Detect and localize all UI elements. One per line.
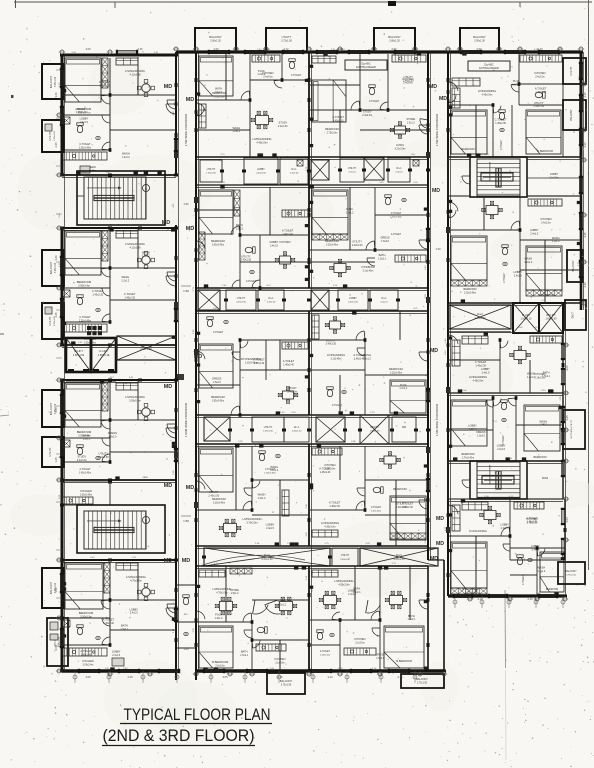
dimension ticks bottom wall: [73, 671, 417, 683]
svg-text:KITCHEN UTILITY: KITCHEN UTILITY: [571, 419, 573, 438]
svg-text:UTILITY: UTILITY: [534, 101, 544, 105]
svg-text:1.45: 1.45: [54, 457, 58, 463]
svg-text:Dn-1: Dn-1: [294, 427, 300, 429]
unit R4 furniture: [451, 400, 560, 460]
svg-text:2.4x1.5: 2.4x1.5: [395, 171, 403, 173]
svg-text:4.12x3.98: 4.12x3.98: [130, 247, 142, 250]
svg-text:M.LIFT: M.LIFT: [74, 349, 83, 353]
bed in L3 bedroom: [65, 383, 108, 438]
corridor 2 MD labels: [429, 84, 447, 562]
svg-text:3.05x3.3m: 3.05x3.3m: [214, 96, 225, 98]
svg-text:WASH: WASH: [527, 372, 535, 376]
svg-text:2.40x1.50: 2.40x1.50: [236, 301, 246, 303]
svg-text:BALCONY: BALCONY: [209, 35, 222, 39]
svg-text:2.45: 2.45: [337, 47, 343, 51]
unit L4 kitchen row walls: [60, 480, 112, 562]
svg-text:BEDROOM: BEDROOM: [77, 280, 92, 284]
svg-text:1.5x2.1: 1.5x2.1: [407, 618, 416, 621]
svg-text:LIVING/DINING: LIVING/DINING: [335, 579, 354, 583]
svg-text:UTILITY: UTILITY: [396, 502, 406, 506]
svg-text:MD: MD: [164, 384, 172, 390]
svg-text:TYPICAL FLOOR PLAN: TYPICAL FLOOR PLAN: [124, 706, 271, 724]
unit D1 walls: [308, 52, 430, 157]
svg-text:2.40: 2.40: [583, 282, 587, 288]
svg-text:MD: MD: [164, 483, 172, 489]
svg-text:LIVING/DINING: LIVING/DINING: [125, 242, 145, 246]
svg-text:2.40x1.50: 2.40x1.50: [209, 495, 220, 498]
lift M.LIFT: [66, 338, 91, 372]
svg-text:LIVING: LIVING: [396, 144, 404, 147]
svg-text:BEDROOM: BEDROOM: [389, 367, 402, 371]
svg-text:BALCONY: BALCONY: [565, 570, 577, 573]
svg-text:BEDROOM: BEDROOM: [212, 497, 225, 501]
kitchen R1: [520, 55, 562, 78]
svg-text:WASH: WASH: [232, 126, 240, 130]
misc small fixtures and extra marks: [63, 117, 562, 627]
svg-text:3.05x3.4m: 3.05x3.4m: [78, 285, 90, 288]
svg-text:LIVING/DINING: LIVING/DINING: [469, 375, 487, 379]
svg-text:1.45x2.4m: 1.45x2.4m: [320, 654, 330, 656]
svg-text:3.21x3.9m: 3.21x3.9m: [395, 148, 406, 150]
svg-text:DUCT: DUCT: [573, 311, 575, 318]
svg-text:B: B: [145, 519, 147, 523]
unit C1 furniture: [196, 55, 302, 145]
svg-text:2.60x1.20: 2.60x1.20: [389, 40, 400, 43]
double-line wall pairs on major separators: [62, 52, 583, 671]
svg-text:2.4x2.3m: 2.4x2.3m: [278, 125, 288, 128]
svg-text:BALCONY: BALCONY: [49, 403, 53, 416]
svg-text:2.4x1.5: 2.4x1.5: [482, 372, 491, 375]
svg-text:LOBBY: LOBBY: [550, 173, 559, 176]
corridor 2 rotated label upper: [435, 113, 439, 146]
living dining L5: [116, 563, 176, 613]
utility protrusion left of L2: [42, 303, 64, 339]
lift G.LIFT: [91, 338, 116, 372]
svg-text:MD: MD: [164, 558, 172, 564]
long duct band left segment: [202, 548, 332, 566]
svg-text:STUDY: STUDY: [279, 121, 288, 125]
svg-text:Duct: Duct: [143, 343, 149, 347]
svg-text:2.75x1.50: 2.75x1.50: [417, 683, 428, 685]
top edge scan line: [14, 1, 592, 3]
svg-text:2.4x1.5: 2.4x1.5: [348, 593, 357, 596]
svg-text:C.TOILET: C.TOILET: [475, 360, 487, 364]
title line 1: [120, 706, 272, 724]
unit C1 walls: [195, 52, 311, 157]
svg-text:3.40: 3.40: [54, 407, 58, 413]
svg-text:1.5M WIDE CORRIDOR: 1.5M WIDE CORRIDOR: [184, 113, 188, 146]
svg-text:3.05x5.0m: 3.05x5.0m: [129, 400, 141, 403]
svg-text:2.40: 2.40: [527, 597, 533, 601]
svg-text:3.05x1.06: 3.05x1.06: [55, 76, 57, 87]
svg-text:KITCHEN: KITCHEN: [280, 241, 291, 244]
svg-text:Dg ABC: Dg ABC: [361, 62, 370, 66]
svg-text:1.2x1.2: 1.2x1.2: [539, 424, 548, 427]
svg-text:STUDY: STUDY: [363, 110, 372, 114]
utility protrusion left of L1: [42, 120, 64, 152]
svg-text:1.50: 1.50: [435, 247, 441, 251]
unit L5 walls (bottom-left flat): [60, 556, 178, 673]
svg-text:1.2x1.2: 1.2x1.2: [215, 617, 224, 620]
svg-text:WASH: WASH: [258, 493, 266, 497]
svg-text:BEDROOM: BEDROOM: [211, 239, 224, 243]
corridor 1 walls: [176, 52, 196, 680]
svg-text:BATH: BATH: [379, 253, 386, 257]
svg-text:2.4x2.0m: 2.4x2.0m: [403, 82, 413, 84]
svg-text:4.65X1.50: 4.65X1.50: [140, 348, 152, 351]
stair core S1 landing: [77, 171, 165, 225]
svg-text:1.5x1.2: 1.5x1.2: [407, 121, 416, 124]
unit D3 walls: [308, 311, 430, 415]
svg-text:2.20: 2.20: [583, 142, 587, 148]
svg-text:A.TOILET: A.TOILET: [283, 359, 295, 363]
svg-text:2.05x1.05: 2.05x1.05: [54, 130, 56, 140]
svg-text:A.TOILET: A.TOILET: [391, 233, 402, 236]
svg-text:3.05: 3.05: [85, 675, 91, 679]
svg-text:1.50: 1.50: [183, 519, 189, 523]
unit C4 furniture: [199, 448, 289, 537]
right duct band: [449, 305, 511, 329]
svg-text:1.45x2.40: 1.45x2.40: [103, 622, 114, 625]
svg-text:3.40: 3.40: [54, 92, 58, 98]
svg-text:C.TOILET: C.TOILET: [79, 316, 91, 319]
svg-text:3.72: 3.72: [283, 47, 289, 51]
svg-text:4.12x3.98: 4.12x3.98: [130, 74, 142, 77]
svg-text:1.2x1.2: 1.2x1.2: [142, 255, 151, 258]
left margin faint dashes: [0, 334, 9, 416]
svg-text:2.4x1.5: 2.4x1.5: [270, 245, 279, 248]
svg-text:1.50M WIDE CORRIDOR: 1.50M WIDE CORRIDOR: [184, 402, 188, 437]
svg-text:2.25x1.45m: 2.25x1.45m: [79, 147, 91, 149]
svg-text:MD: MD: [162, 220, 170, 226]
balcony right of R5: [558, 562, 585, 584]
svg-text:MD: MD: [182, 558, 190, 564]
balcony left of L5: [42, 568, 64, 608]
svg-text:4.45x3.0m: 4.45x3.0m: [473, 380, 484, 382]
svg-text:C.TOILET: C.TOILET: [501, 139, 503, 150]
svg-text:MD: MD: [186, 485, 194, 491]
svg-text:LOBBY: LOBBY: [270, 240, 279, 244]
svg-text:2.40x1.50: 2.40x1.50: [403, 79, 414, 82]
svg-text:BATH: BATH: [241, 649, 248, 653]
svg-text:LOBBY: LOBBY: [349, 298, 357, 300]
svg-text:2.4x1.5: 2.4x1.5: [514, 275, 523, 278]
svg-text:2.25x1.45m: 2.25x1.45m: [79, 320, 91, 322]
svg-text:UTILITY: UTILITY: [370, 427, 379, 429]
svg-text:1.2x1.2: 1.2x1.2: [537, 570, 546, 573]
svg-text:2.40x1.50: 2.40x1.50: [396, 506, 407, 509]
svg-text:4.65x1.50: 4.65x1.50: [475, 317, 487, 320]
svg-text:2.05: 2.05: [54, 645, 58, 651]
living dining L1: [116, 58, 176, 109]
svg-text:LOBBY: LOBBY: [497, 443, 506, 447]
svg-text:1.45x2.35: 1.45x2.35: [333, 119, 344, 122]
unit D4 walls: [308, 444, 430, 546]
svg-text:1.5x2.1: 1.5x2.1: [215, 91, 224, 94]
unit C5 furniture: [199, 568, 297, 668]
svg-text:BALCONY: BALCONY: [570, 109, 573, 120]
bed in L1 bedroom: [65, 58, 108, 115]
svg-text:2.4x2.3m: 2.4x2.3m: [287, 391, 297, 394]
svg-text:KIT/DINING: KIT/DINING: [361, 266, 374, 269]
svg-text:LIVING/DINING: LIVING/DINING: [213, 587, 232, 591]
svg-text:2.4x1.5: 2.4x1.5: [497, 448, 506, 451]
svg-text:1.45x2.35: 1.45x2.35: [475, 365, 486, 368]
svg-text:A.TOILET: A.TOILET: [253, 358, 265, 362]
unit D5 furniture: [312, 570, 424, 668]
svg-text:2.45: 2.45: [54, 312, 58, 318]
svg-text:(2ND & 3RD FLOOR): (2ND & 3RD FLOOR): [103, 727, 255, 745]
svg-text:1.95x1.50: 1.95x1.50: [370, 430, 380, 432]
kitchen L5: [63, 648, 124, 666]
svg-text:C.TOILET: C.TOILET: [291, 75, 302, 77]
lobby below lifts: [66, 374, 184, 382]
svg-text:2.40x1.50: 2.40x1.50: [348, 301, 358, 303]
unit C2 furniture: [199, 190, 308, 288]
svg-text:LIVING/DINING: LIVING/DINING: [321, 521, 339, 525]
svg-text:2.4x2.0m: 2.4x2.0m: [263, 76, 273, 78]
toilet room L1: [77, 115, 110, 149]
svg-text:3.05: 3.05: [222, 675, 228, 679]
svg-text:4.45x3.0m: 4.45x3.0m: [482, 94, 493, 96]
duct X mark service row D3b: [360, 415, 389, 444]
svg-text:UTILITY: UTILITY: [403, 75, 413, 79]
svg-text:2.4x1.5: 2.4x1.5: [380, 301, 388, 303]
svg-text:3.40: 3.40: [54, 255, 58, 261]
unit D2 furniture: [312, 190, 426, 277]
svg-text:A.TOILET: A.TOILET: [526, 516, 538, 520]
junction marker circles: [56, 47, 587, 676]
balcony below C5: [267, 673, 305, 694]
svg-text:A.TOILET: A.TOILET: [535, 87, 547, 91]
svg-text:3.72x1.05: 3.72x1.05: [281, 40, 292, 43]
svg-text:WASH: WASH: [524, 257, 532, 261]
svg-text:A.TOILET: A.TOILET: [329, 501, 341, 505]
svg-text:1.95x1.50: 1.95x1.50: [263, 430, 273, 432]
svg-text:BALCONY: BALCONY: [49, 582, 53, 595]
svg-text:M.BEDROOM: M.BEDROOM: [537, 150, 553, 153]
svg-text:3.45: 3.45: [583, 232, 587, 238]
top edge small ticks: [114, 2, 116, 8]
svg-text:LIVING/DINING: LIVING/DINING: [253, 137, 272, 141]
svg-text:KITCHEN: KITCHEN: [82, 659, 94, 663]
svg-text:UTILITY: UTILITY: [207, 169, 216, 171]
svg-text:Duct: Duct: [396, 553, 402, 557]
svg-text:2.40x1.50: 2.40x1.50: [241, 259, 252, 262]
svg-text:M.BEDROOM: M.BEDROOM: [396, 660, 412, 663]
svg-text:WASH: WASH: [121, 275, 129, 279]
bottom faint crease dashes: [504, 590, 507, 668]
corridor1 bottom toilets strip: [176, 585, 196, 648]
svg-text:MD: MD: [186, 97, 194, 103]
svg-text:1.2x1.2: 1.2x1.2: [552, 240, 561, 243]
window symbols on exterior walls: [60, 50, 583, 673]
unit R3 walls: [447, 332, 565, 393]
svg-text:2.40: 2.40: [537, 47, 543, 51]
unit D1 furniture: [312, 55, 428, 150]
toilet room L5: [77, 618, 110, 656]
unit D4 furniture: [312, 448, 426, 540]
svg-text:2.40x1.50: 2.40x1.50: [292, 430, 302, 432]
unit R1 walls (top-right): [447, 52, 583, 160]
svg-text:LOBBY: LOBBY: [266, 522, 275, 526]
svg-text:3.05: 3.05: [85, 47, 91, 51]
unit R1 furniture: [448, 78, 561, 154]
svg-text:WASH: WASH: [270, 465, 278, 469]
svg-text:BALCONY: BALCONY: [473, 35, 486, 39]
svg-text:2.4x1.5: 2.4x1.5: [80, 121, 89, 124]
svg-text:LOBBY: LOBBY: [129, 607, 138, 611]
svg-text:WM: WM: [402, 427, 406, 429]
svg-text:3.45: 3.45: [565, 415, 569, 421]
room box right of stair S3: [527, 157, 581, 196]
balcony right of R2: [567, 250, 583, 282]
svg-text:LOBBY: LOBBY: [530, 228, 539, 232]
living dining L2: [116, 231, 176, 281]
svg-text:1.50: 1.50: [183, 647, 189, 651]
svg-text:BEDROOM: BEDROOM: [211, 395, 224, 399]
landing left of stair S3: [448, 157, 470, 196]
svg-text:C.TOILET: C.TOILET: [523, 574, 525, 585]
svg-text:1.45x2.40: 1.45x2.40: [535, 91, 546, 94]
svg-text:1.45x2.35m: 1.45x2.35m: [390, 216, 402, 218]
svg-text:3.05x1.06: 3.05x1.06: [55, 262, 57, 273]
balcony below D5: [401, 674, 444, 688]
svg-text:BEDROOM: BEDROOM: [393, 487, 406, 491]
wall dimension annotations: [54, 47, 587, 679]
svg-text:2.4x1.5: 2.4x1.5: [266, 527, 275, 530]
svg-text:1.45x2.40: 1.45x2.40: [254, 362, 265, 365]
svg-text:G.LIFT: G.LIFT: [99, 349, 108, 353]
svg-text:PUJA: PUJA: [400, 383, 407, 387]
corridor 2 rotated label lower: [435, 403, 439, 436]
utility balcony right of R1: [563, 58, 586, 84]
svg-text:UTILITY: UTILITY: [341, 555, 350, 557]
svg-text:BATH: BATH: [408, 614, 415, 618]
svg-text:1.5x1.2: 1.5x1.2: [278, 603, 287, 606]
svg-text:3.1x2.0m: 3.1x2.0m: [355, 642, 365, 644]
svg-text:1.2x1.2: 1.2x1.2: [122, 156, 131, 159]
svg-text:1.45x2.40: 1.45x2.40: [282, 233, 293, 236]
svg-text:2.4x2.3m: 2.4x2.3m: [77, 459, 87, 462]
stair core S4: [470, 461, 527, 499]
svg-text:UTILITY: UTILITY: [49, 447, 52, 456]
svg-text:3.05x2.4m: 3.05x2.4m: [83, 664, 94, 666]
svg-text:1.5x2.0: 1.5x2.0: [213, 381, 222, 384]
svg-text:3.25x2.45m: 3.25x2.45m: [80, 495, 92, 497]
svg-text:1.45x2.35: 1.45x2.35: [124, 297, 135, 300]
svg-text:LOBBY: LOBBY: [348, 588, 357, 592]
svg-text:2.4x1.5: 2.4x1.5: [530, 233, 539, 236]
svg-text:2.75x1.50: 2.75x1.50: [566, 575, 576, 577]
unit C5 walls (bottom center-left): [195, 566, 312, 673]
svg-text:LIVING/DINING: LIVING/DINING: [478, 89, 496, 93]
svg-text:C.TOILET: C.TOILET: [332, 115, 344, 119]
svg-text:UTILITY: UTILITY: [326, 338, 336, 342]
second utility box right of R1: [563, 100, 586, 130]
dimension ticks right bottom wall: [453, 596, 565, 608]
svg-text:1.5x1.2: 1.5x1.2: [231, 592, 240, 595]
svg-text:2.4x1.5: 2.4x1.5: [112, 654, 121, 657]
svg-text:LOBBY: LOBBY: [468, 424, 477, 428]
svg-text:4.30x3.0m: 4.30x3.0m: [324, 526, 335, 529]
fire extinguisher box D1: [345, 60, 387, 70]
svg-text:2.60: 2.60: [391, 47, 397, 51]
svg-text:1.5x1.5: 1.5x1.5: [348, 171, 356, 173]
svg-text:LIVING/DINING: LIVING/DINING: [327, 353, 345, 357]
svg-text:3.10: 3.10: [327, 675, 333, 679]
svg-text:1.5x2.0: 1.5x2.0: [108, 435, 117, 438]
left margin small dash: [11, 95, 14, 98]
svg-text:A.TOILET: A.TOILET: [103, 618, 115, 622]
svg-text:M.BEDROOM: M.BEDROOM: [212, 660, 228, 664]
svg-text:PUJA: PUJA: [346, 207, 353, 211]
kitchen L1: [63, 152, 107, 173]
toilet room L2: [77, 288, 110, 322]
svg-text:4.05x3.0m: 4.05x3.0m: [338, 584, 349, 587]
svg-text:1.5x2.1: 1.5x2.1: [542, 375, 551, 378]
auto room labels layer: [75, 69, 560, 660]
svg-text:BALCONY: BALCONY: [280, 679, 293, 683]
staircase S1: [84, 177, 150, 219]
svg-text:2.4x1.42m: 2.4x1.42m: [371, 510, 381, 512]
svg-text:BEDROOM: BEDROOM: [325, 239, 338, 243]
svg-text:LOBBY: LOBBY: [481, 367, 490, 371]
svg-text:1.45x2.40: 1.45x2.40: [76, 111, 87, 114]
unit C3 furniture: [199, 317, 308, 404]
svg-text:BEDROOM: BEDROOM: [534, 456, 547, 459]
svg-text:BALCONY: BALCONY: [388, 35, 401, 39]
svg-text:PUJA: PUJA: [258, 69, 265, 73]
svg-text:3.12: 3.12: [477, 597, 483, 601]
svg-text:DRESS: DRESS: [212, 377, 221, 381]
svg-text:2.75: 2.75: [277, 675, 283, 679]
svg-text:LOBBY: LOBBY: [112, 650, 121, 654]
unit L1 walls (top-left flat): [60, 52, 178, 177]
svg-text:UTILITY: UTILITY: [237, 298, 246, 300]
svg-text:BEDROOM: BEDROOM: [464, 288, 477, 291]
svg-text:2.4x2.2m: 2.4x2.2m: [541, 222, 551, 224]
svg-text:Dn-1: Dn-1: [292, 169, 298, 171]
top balcony boxes: [195, 28, 499, 52]
svg-text:1.80X1.90: 1.80X1.90: [73, 354, 85, 357]
unit L2 walls: [60, 225, 178, 347]
svg-text:W.C: W.C: [184, 614, 189, 616]
svg-text:2.40x1.50: 2.40x1.50: [534, 105, 545, 108]
svg-text:3.1x3.45m: 3.1x3.45m: [331, 358, 342, 360]
unit C2 walls: [195, 157, 311, 288]
svg-text:BEDROOM: BEDROOM: [546, 588, 558, 591]
svg-text:1.2x1.2: 1.2x1.2: [232, 130, 241, 133]
main top wall: [176, 51, 583, 54]
svg-text:A.TOILET: A.TOILET: [320, 650, 331, 653]
svg-text:Dn-1: Dn-1: [382, 298, 388, 300]
svg-text:A.TOILET: A.TOILET: [282, 229, 294, 233]
svg-text:2.40x1.50: 2.40x1.50: [256, 172, 266, 174]
svg-text:2.50: 2.50: [476, 47, 482, 51]
svg-text:LIVING/DINING: LIVING/DINING: [469, 530, 487, 533]
unit R2 walls: [447, 160, 583, 310]
svg-text:BALCONY: BALCONY: [49, 76, 53, 89]
kitchen L2: [63, 324, 107, 344]
svg-text:LOBBY: LOBBY: [531, 544, 540, 548]
center service band row: [196, 290, 311, 311]
svg-text:2.40x1.50: 2.40x1.50: [352, 244, 363, 247]
svg-text:WASH: WASH: [363, 353, 371, 357]
svg-text:LIVING/DINING: LIVING/DINING: [125, 69, 145, 73]
svg-text:C.TOILET: C.TOILET: [99, 80, 111, 84]
svg-text:EXTINGUISHER: EXTINGUISHER: [479, 66, 499, 70]
